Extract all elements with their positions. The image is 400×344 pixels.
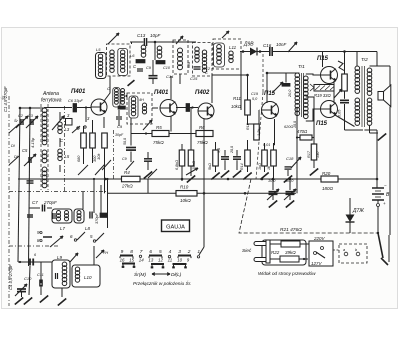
wire R16 R17 junction <box>297 137 300 139</box>
volume link dash lower <box>256 92 263 179</box>
coil L9 <box>62 262 67 267</box>
mains plug prong bottom <box>254 258 268 262</box>
coil IF4 primary <box>217 45 222 50</box>
IF can 4 detector dashed box <box>213 39 241 69</box>
capacitor in IF3 <box>194 66 201 68</box>
svg-text:GAUJA: GAUJA <box>166 225 185 231</box>
coil L7 winding a <box>57 211 61 215</box>
wire T2 collector into boxB <box>171 75 180 77</box>
coil osc outer <box>98 54 102 58</box>
switch contact mid-left <box>43 236 52 238</box>
coil IF filter2 primary box <box>129 96 138 118</box>
svg-text:R4: R4 <box>124 170 130 175</box>
svg-text:a: a <box>343 248 345 252</box>
wire R11 top link <box>247 75 249 100</box>
resistor R22a <box>281 241 300 247</box>
trimmer capacitor C2 <box>20 119 22 125</box>
ground C11 <box>40 295 48 302</box>
wire T4 base <box>258 109 261 111</box>
svg-text:Przełącznik w położeniu Śr.: Przełącznik w położeniu Śr. <box>133 280 191 287</box>
switch plane dash-dot line left <box>8 96 10 306</box>
wire box B bottom stub <box>179 74 181 84</box>
svg-text:13: 13 <box>148 258 153 263</box>
wire osc verticals <box>82 192 84 209</box>
voltage selector box <box>309 241 333 266</box>
svg-text:20,0: 20,0 <box>230 146 234 154</box>
svg-text:R22: R22 <box>271 250 280 255</box>
svg-text:L6: L6 <box>130 53 135 58</box>
svg-text:R12: R12 <box>246 123 250 130</box>
svg-text:1k: 1k <box>267 166 271 170</box>
wire T4 collector to Tr1 <box>266 73 268 103</box>
svg-text:Widok od strony przewodów: Widok od strony przewodów <box>258 271 316 276</box>
coil IFT1 right <box>121 89 125 93</box>
capacitor C15a <box>137 68 143 70</box>
svg-text:680: 680 <box>77 155 81 162</box>
wire osc top <box>29 207 40 209</box>
power switch contact <box>381 258 388 265</box>
coil IFT1 left <box>115 89 119 93</box>
wire L3 riser <box>59 112 61 120</box>
svg-text:8: 8 <box>130 249 133 255</box>
wire T5 collector drop <box>322 52 324 68</box>
capacitor C5 <box>28 157 30 163</box>
transformer Tr2 secondary upper <box>367 68 372 73</box>
svg-text:220V: 220V <box>313 236 326 241</box>
wire R11 <box>247 92 249 100</box>
resistor IF3 damping <box>156 61 165 64</box>
svg-text:130: 130 <box>316 151 320 158</box>
trimmer arrow IF2 <box>176 36 183 44</box>
resistor R17 vertical <box>311 144 317 160</box>
ground bottom-left 1 <box>15 297 23 304</box>
capacitor C8m <box>126 147 136 149</box>
wire IF bus y75 <box>212 74 248 76</box>
svg-text:2: 2 <box>187 249 191 255</box>
wire R1R2 top <box>83 126 85 133</box>
capacitor C16 <box>269 47 271 56</box>
wire L10 top <box>93 246 95 265</box>
switch lever left upper <box>9 124 19 133</box>
svg-text:10: 10 <box>177 258 182 263</box>
svg-text:L7: L7 <box>60 226 66 231</box>
resistor cluster Rd vertical <box>271 150 277 166</box>
svg-text:L11: L11 <box>229 45 237 50</box>
svg-text:10k: 10k <box>96 153 101 160</box>
coil osc outer box <box>96 53 107 79</box>
trimmer arrow IF1 <box>108 33 119 44</box>
wire R18 chain top <box>344 52 346 75</box>
capacitor C base T1 dark <box>73 104 77 113</box>
wire R3 bottom <box>104 148 106 193</box>
svg-text:C15: C15 <box>190 76 198 81</box>
coil IF1 secondary box <box>118 49 128 76</box>
capacitor cluster Cb <box>233 156 241 158</box>
svg-text:C11: C11 <box>37 273 44 277</box>
wire output top rail <box>321 51 377 53</box>
wire antenna to base <box>44 107 72 109</box>
node detector right <box>259 50 262 53</box>
capacitor C8 <box>89 212 91 219</box>
mains plug plate <box>266 240 270 263</box>
svg-text:10pF: 10pF <box>150 33 161 38</box>
coil L1 antenna winding <box>42 108 47 113</box>
wire osc vertical joins <box>93 178 95 180</box>
trimmer capacitor C4 <box>17 288 26 290</box>
svg-text:5: 5 <box>159 249 162 255</box>
resistor R13 vertical <box>254 124 260 140</box>
wire R5 left <box>131 133 152 135</box>
svg-text:C4 4,5-270pF: C4 4,5-270pF <box>8 264 13 290</box>
resistor R5 horizontal <box>152 131 169 137</box>
resistor R7 vertical <box>179 150 185 166</box>
svg-text:Д7Ж: Д7Ж <box>352 208 364 214</box>
coil IF3 winding b <box>202 50 206 54</box>
svg-text:16: 16 <box>120 258 125 263</box>
wire C13 to junction <box>148 41 197 43</box>
coil L5 coupling <box>58 149 62 153</box>
svg-text:П402: П402 <box>195 90 210 96</box>
svg-text:R10: R10 <box>180 185 189 190</box>
wire detector row <box>240 51 250 53</box>
capacitor on left vertical <box>27 180 34 182</box>
volume pot arrow <box>272 82 283 93</box>
volume pot arrow <box>291 157 301 168</box>
electrolytic C24 <box>272 179 274 190</box>
wire antenna left vertical 1 <box>18 108 20 262</box>
svg-text:R14: R14 <box>240 163 244 170</box>
svg-text:0,01: 0,01 <box>263 143 270 147</box>
capacitor C20 electrolytic <box>285 73 287 83</box>
svg-text:14: 14 <box>139 258 144 263</box>
wire x28 down <box>29 266 30 295</box>
svg-text:C16: C16 <box>263 43 272 48</box>
wire detector drop volume <box>240 52 242 111</box>
capacitor C11 <box>39 280 41 287</box>
wire cluster bottoms <box>215 166 217 172</box>
trimmer arrow L10 <box>96 250 104 258</box>
svg-text:C10: C10 <box>24 276 32 281</box>
speaker <box>378 92 384 101</box>
wire T1 emitter down <box>103 117 105 128</box>
wire cluster tops <box>215 142 217 150</box>
capacitor C18 <box>285 166 292 168</box>
svg-text:Tr1: Tr1 <box>298 64 305 70</box>
thermistor squiggle <box>338 61 344 71</box>
svg-text:R20: R20 <box>322 171 331 176</box>
mains plug prong top <box>254 242 268 246</box>
svg-text:20,0: 20,0 <box>288 89 292 98</box>
wire Tr1 primary drop <box>296 107 298 193</box>
lever below R3 <box>102 160 111 170</box>
switch bottom bar 1 <box>122 263 135 265</box>
coil L7 winding b <box>65 211 69 215</box>
svg-text:127V: 127V <box>311 261 323 266</box>
transistor T5 P15 upper output <box>321 67 338 84</box>
svg-text:C5: C5 <box>22 148 28 153</box>
capacitor beside L7 <box>52 213 54 219</box>
ground IFT1 <box>128 80 135 86</box>
ground R8 <box>187 175 195 182</box>
svg-text:C18: C18 <box>286 156 294 161</box>
wire R22 links <box>270 243 281 245</box>
wire Tr2 sec bottom ground <box>369 125 371 133</box>
dash-dot switch boundary horizontal <box>9 191 108 193</box>
svg-text:+: + <box>383 201 386 206</box>
wire switch to IF drop <box>203 193 205 247</box>
svg-text:4: 4 <box>169 249 172 255</box>
ground bottom-left 2 <box>24 297 32 304</box>
node antenna top junctions <box>19 107 22 110</box>
coil L8 winding <box>77 211 81 215</box>
svg-text:П15: П15 <box>264 91 276 97</box>
wire diode to C16 <box>257 51 269 53</box>
wire C8m down <box>130 152 132 163</box>
transformer Tr2 secondary lower <box>367 98 372 103</box>
wire cap to T3 base <box>190 107 198 109</box>
node detector left <box>242 50 245 53</box>
wire antenna top <box>20 107 44 109</box>
wire T2 collector T-network <box>170 76 172 99</box>
resistor R8 vertical <box>188 150 194 166</box>
wire Tr1 center tap <box>306 96 314 98</box>
ground cluster 5 <box>260 172 268 179</box>
ferrite rod dashed core <box>40 104 42 190</box>
switch contact circle 4 <box>168 255 170 257</box>
switch lever 6 <box>77 232 85 240</box>
svg-text:R11: R11 <box>233 96 241 101</box>
switch contact circle 1 <box>197 256 199 258</box>
node IF bus <box>246 74 249 77</box>
coil IF4 secondary <box>229 51 233 55</box>
lever below R2 <box>95 164 105 175</box>
transistor hatched bias box F <box>314 85 334 92</box>
svg-text:C14: C14 <box>166 74 174 79</box>
wire Tr1 sec top to T5 base <box>306 74 321 75</box>
svg-text:1kΩ: 1kΩ <box>258 163 262 170</box>
wire Tr1 sec bottom to T6 base <box>306 109 320 121</box>
AVC dashed line <box>239 179 377 233</box>
svg-text:10,0: 10,0 <box>268 179 276 183</box>
svg-text:5,0: 5,0 <box>217 148 221 153</box>
wire T2 collector to cap <box>176 107 186 109</box>
trimmer arrow C4 <box>15 284 27 296</box>
svg-text:П401: П401 <box>154 90 169 96</box>
ground cluster 2 <box>221 170 229 177</box>
resistor cluster Ra vertical <box>213 150 219 166</box>
capacitor C22 <box>340 99 349 101</box>
wire left rail drop <box>107 179 109 193</box>
wire x94 up join <box>93 179 95 192</box>
terminal dashed box <box>339 244 367 263</box>
svg-text:680: 680 <box>187 62 191 68</box>
svg-text:L8: L8 <box>85 226 91 231</box>
transformer Tr1 core <box>300 73 302 117</box>
trimmer capacitor C3 <box>30 119 32 125</box>
coil L3 coupling <box>58 122 62 126</box>
svg-text:620Ω: 620Ω <box>284 125 293 129</box>
node second rail <box>203 192 206 195</box>
wire R1R2 bottom <box>83 148 85 164</box>
wire IFT1 top <box>109 76 111 87</box>
trimmer arrow antenna <box>52 116 64 130</box>
coil IF filter2 secondary <box>142 103 146 107</box>
coil IF3 primary <box>157 46 162 51</box>
svg-text:7H: 7H <box>103 250 108 255</box>
wire T3 emitter down <box>203 119 205 193</box>
lever below R1 <box>78 165 88 175</box>
wire right rail drop <box>376 52 378 67</box>
svg-text:L10: L10 <box>84 275 92 280</box>
svg-text:470Ω: 470Ω <box>297 129 308 134</box>
wire box B to T2 <box>176 106 180 108</box>
svg-text:П15: П15 <box>316 121 328 127</box>
dash-dot switch boundary bottom <box>9 245 60 247</box>
ground L9 <box>58 298 66 305</box>
terminal box 3 <box>66 119 73 126</box>
coil L5 antenna winding <box>42 167 47 172</box>
wire x148 rail link <box>147 179 149 193</box>
resistor R11 vertical <box>245 100 251 115</box>
coil L7 box <box>52 209 72 223</box>
coil IF2 primary <box>141 45 146 50</box>
node interstage <box>191 106 193 108</box>
wire C mid1 <box>147 152 149 158</box>
transistor T6 P15 lower output <box>321 101 338 118</box>
node output top rail <box>343 50 346 53</box>
wire vert stub C4 <box>21 292 23 297</box>
wire Tr2 sec to speaker <box>370 65 391 67</box>
ground Tr2 secondary <box>378 133 386 140</box>
svg-text:3: 3 <box>178 249 181 255</box>
svg-text:Dł(L): Dł(L) <box>171 272 182 278</box>
transistor T2 P401 <box>160 100 177 117</box>
svg-text:b: b <box>355 248 357 252</box>
transistor T3 P402 <box>198 103 214 119</box>
wire T2 emitter down <box>170 116 172 132</box>
svg-text:ferrytowa: ferrytowa <box>41 98 62 104</box>
wire Tr2 prim bottom to T6 <box>335 115 355 127</box>
wire C16 right <box>273 51 322 53</box>
resistor dark bar R7 <box>100 213 108 218</box>
svg-text:Д9В: Д9В <box>243 42 254 48</box>
node R22 <box>303 258 305 260</box>
wire IF1 to C13 <box>130 41 144 43</box>
wire cap T2 stub <box>118 110 120 116</box>
battery B <box>372 187 384 189</box>
node bus dot <box>19 261 21 263</box>
coil L8 box <box>74 209 84 223</box>
node R16 left <box>296 136 298 138</box>
wire C17 stub <box>152 60 154 76</box>
ground C25 <box>289 195 291 200</box>
resistor R1 vertical <box>81 133 87 148</box>
IF filter dashed box 2 <box>127 93 152 124</box>
wire C11 stub <box>40 262 42 283</box>
svg-text:L5: L5 <box>96 47 101 52</box>
coil IF filter2 primary <box>131 97 135 101</box>
svg-text:5kΩ: 5kΩ <box>208 163 212 170</box>
capacitor inside L9 <box>55 273 57 279</box>
resistor R4 horizontal <box>122 176 141 182</box>
switch contact bar 3-2 <box>178 255 191 257</box>
svg-text:50,0: 50,0 <box>123 138 127 145</box>
terminal a <box>344 252 348 256</box>
svg-text:27kΩ: 27kΩ <box>121 184 133 189</box>
range arrow <box>152 273 170 275</box>
svg-text:L3: L3 <box>65 127 70 132</box>
wire C22 down <box>344 104 346 130</box>
transformer Tr2 primary lower <box>355 98 360 103</box>
wire Tr2 center tap to rail <box>364 129 377 131</box>
wire T1 collector up <box>104 87 110 101</box>
ground C24 <box>272 195 274 200</box>
resistor cluster Rc vertical <box>262 150 268 166</box>
wire junction down <box>154 42 156 60</box>
coil IF1 secondary <box>121 50 125 54</box>
wire T1 base branch down <box>85 108 87 123</box>
wire diode top <box>350 195 360 197</box>
gramophone arrow <box>288 42 297 52</box>
resistor R18 vertical <box>342 74 348 91</box>
svg-text:Śr: Śr <box>1 95 6 100</box>
svg-text:C12: C12 <box>203 67 211 71</box>
svg-text:6,8kΩ: 6,8kΩ <box>175 160 179 170</box>
capacitor C around T2 base <box>116 116 122 118</box>
mains unit outline box <box>262 240 306 265</box>
transistor T4 P15 <box>262 102 279 119</box>
svg-text:C9: C9 <box>117 124 123 129</box>
resistor R3 vertical <box>102 133 108 148</box>
svg-text:−: − <box>384 183 387 188</box>
fork symbol F <box>310 84 314 88</box>
svg-text:C9: C9 <box>122 157 127 161</box>
switch contact circle 7 <box>139 255 141 257</box>
svg-text:C6 33pF: C6 33pF <box>68 98 84 103</box>
trimmer arrow R19 <box>334 89 342 98</box>
wire battery top <box>376 179 378 188</box>
svg-text:0,05: 0,05 <box>338 109 342 117</box>
svg-text:C13: C13 <box>137 33 146 38</box>
ground C mid1 <box>144 171 152 178</box>
switch plane dash-dot short <box>113 130 115 179</box>
svg-text:5,0: 5,0 <box>252 97 258 101</box>
wire L9 bottom to ground <box>61 288 63 297</box>
wire IF filter2 to T2 base <box>152 107 158 109</box>
svg-text:10nF: 10nF <box>276 42 287 47</box>
svg-text:Śr(M): Śr(M) <box>134 271 146 278</box>
resistor IFT1 damping <box>118 106 125 109</box>
svg-text:Antena: Antena <box>42 91 59 97</box>
diode D7Zh <box>349 198 351 215</box>
wire R18 to C22 <box>344 91 346 99</box>
svg-text:15: 15 <box>129 258 134 263</box>
wire speaker down <box>389 107 391 236</box>
svg-text:R5: R5 <box>156 125 162 130</box>
wire antenna left vertical 2 <box>29 108 31 266</box>
svg-text:12: 12 <box>158 258 163 263</box>
transformer Tr1 secondary <box>304 76 309 81</box>
svg-text:7: 7 <box>140 249 143 255</box>
IF transformer 1 secondary box <box>113 88 120 108</box>
svg-text:Sieć: Sieć <box>242 248 252 254</box>
trimmer arrow mid <box>143 120 152 130</box>
capacitor interstage dark <box>186 104 190 112</box>
svg-text:11: 11 <box>168 258 173 263</box>
switch plane dash-dot line mid <box>64 106 66 192</box>
wire selector to terminals dashes <box>333 249 339 251</box>
trimmer arrow IF4 <box>222 31 229 38</box>
